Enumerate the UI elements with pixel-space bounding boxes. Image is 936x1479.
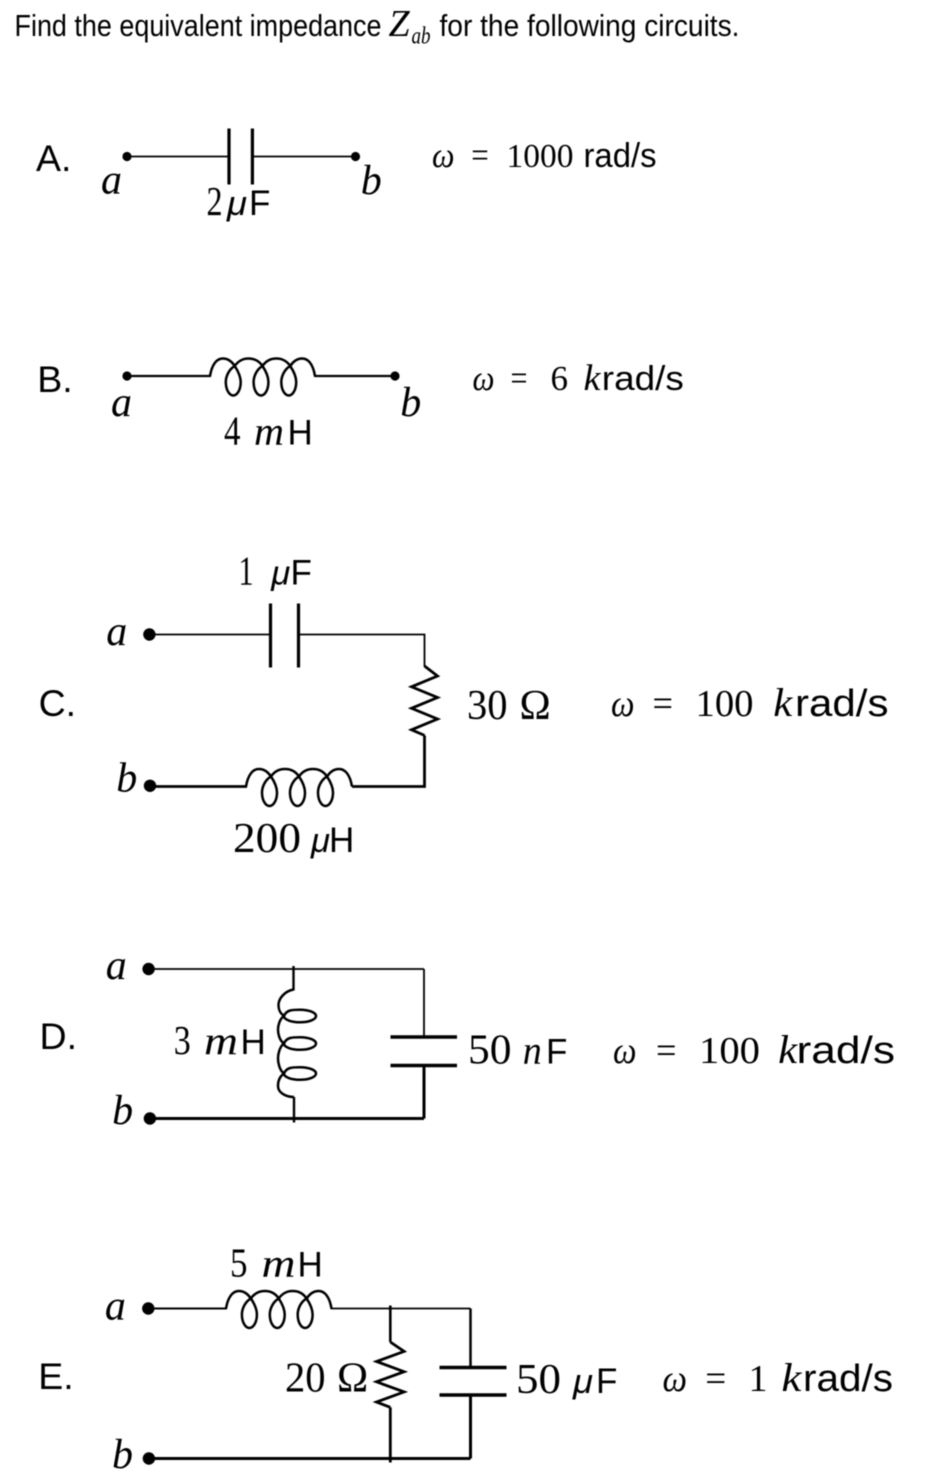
- capacitor 50nF bottom plate: [391, 1064, 458, 1068]
- capacitor 50nF top plate: [391, 1035, 458, 1039]
- svg-text:=: =: [471, 135, 489, 175]
- value label 4 mH: [224, 408, 313, 454]
- node b (E): [143, 1452, 155, 1464]
- wire inductor to top-right corner (E): [331, 1308, 471, 1310]
- svg-text:n: n: [523, 1027, 542, 1072]
- svg-text:μ: μ: [310, 822, 330, 860]
- value label 50 nF: [468, 1027, 567, 1073]
- node a (E): [142, 1302, 154, 1314]
- svg-text:1: 1: [749, 1358, 768, 1400]
- bottom rail (D): [150, 1117, 424, 1120]
- wire a to inductor (B): [127, 375, 211, 377]
- svg-text:100: 100: [699, 1030, 760, 1072]
- svg-text:m: m: [204, 1018, 238, 1063]
- wire inductor to b (B): [314, 375, 395, 377]
- svg-text:3: 3: [174, 1017, 191, 1063]
- svg-text:Ω: Ω: [337, 1356, 368, 1402]
- svg-text:a: a: [105, 1284, 126, 1330]
- svg-text:k: k: [781, 1355, 802, 1400]
- value label 2 uF: [207, 178, 271, 224]
- svg-text:F: F: [596, 1362, 617, 1401]
- svg-text:100: 100: [696, 683, 754, 725]
- node a (D): [142, 963, 154, 975]
- value label 3 mH: [174, 1017, 266, 1063]
- wire capacitor to top-right corner (C): [299, 635, 425, 667]
- svg-text:E.: E.: [38, 1355, 73, 1397]
- svg-text:m: m: [254, 409, 284, 454]
- svg-text:k: k: [773, 680, 793, 725]
- capacitor 2uF right plate: [251, 129, 254, 185]
- node b (C): [144, 780, 156, 792]
- resistor 20 Ohm zigzag: [377, 1342, 405, 1407]
- capacitor 50uF bottom plate: [440, 1393, 507, 1397]
- capacitor branch top lead (E): [469, 1309, 472, 1368]
- inductor 3mH vertical coil: [278, 990, 316, 1098]
- svg-text:50: 50: [516, 1357, 561, 1403]
- omega equation (E): [663, 1355, 894, 1400]
- svg-text:6: 6: [551, 359, 569, 398]
- svg-text:=: =: [653, 683, 674, 725]
- svg-text:=: =: [511, 358, 528, 398]
- node b (D): [144, 1112, 156, 1124]
- svg-text:m: m: [262, 1241, 296, 1286]
- svg-text:1: 1: [239, 548, 254, 594]
- svg-text:rad/s: rad/s: [584, 137, 657, 175]
- svg-text:Z: Z: [389, 3, 411, 45]
- capacitor 2uF left plate: [227, 129, 230, 185]
- svg-text:ω: ω: [663, 1358, 688, 1400]
- svg-text:H: H: [298, 1246, 323, 1285]
- svg-text:rad/s: rad/s: [797, 1030, 896, 1072]
- svg-text:=: =: [656, 1030, 677, 1072]
- capacitor 50uF top plate: [440, 1366, 507, 1370]
- svg-text:b: b: [361, 158, 382, 204]
- capacitor 1uF left plate: [269, 604, 272, 668]
- bottom rail (E): [149, 1457, 471, 1460]
- capacitor branch top lead (D): [423, 969, 425, 1037]
- svg-text:2: 2: [207, 178, 223, 224]
- capacitor branch bottom lead (D): [423, 1066, 426, 1119]
- capacitor 1uF right plate: [297, 604, 300, 668]
- svg-text:for the following circuits.: for the following circuits.: [440, 8, 740, 43]
- svg-text:μ: μ: [226, 185, 247, 223]
- wire inductor to b (C): [149, 785, 247, 788]
- svg-text:50: 50: [468, 1027, 512, 1073]
- inductor branch bottom lead (D): [293, 1097, 295, 1123]
- svg-text:b: b: [400, 380, 421, 426]
- resistor 30 Ohm zigzag: [412, 666, 438, 735]
- node a (A): [122, 152, 131, 161]
- svg-text:a: a: [111, 380, 132, 426]
- resistor branch bottom lead (E): [389, 1407, 392, 1462]
- resistor branch top lead (E): [389, 1306, 392, 1343]
- svg-text:ω: ω: [611, 683, 635, 725]
- omega equation (C): [611, 680, 889, 725]
- svg-text:C.: C.: [39, 682, 77, 724]
- svg-text:μ: μ: [572, 1363, 593, 1401]
- svg-text:rad/s: rad/s: [795, 683, 889, 725]
- svg-text:rad/s: rad/s: [803, 1358, 893, 1400]
- wire a to inductor (E): [148, 1308, 227, 1310]
- svg-text:b: b: [112, 1432, 133, 1478]
- wire resistor to bottom-right corner (C): [352, 735, 425, 786]
- value label 50 uF: [516, 1357, 617, 1403]
- svg-text:ω: ω: [613, 1030, 637, 1072]
- wire capacitor to b (A): [252, 156, 355, 158]
- node a (B): [122, 371, 131, 380]
- svg-text:H: H: [241, 1023, 266, 1062]
- svg-text:ω: ω: [473, 358, 495, 398]
- value label 20 Ohm: [285, 1356, 368, 1402]
- inductor 200uH coil: [246, 769, 352, 806]
- svg-text:a: a: [106, 943, 127, 989]
- svg-text:rad/s: rad/s: [602, 360, 684, 398]
- value label 30 Ohm: [467, 683, 551, 729]
- node a (C): [143, 628, 155, 640]
- svg-text:μ: μ: [270, 555, 290, 593]
- svg-text:20: 20: [285, 1356, 326, 1402]
- svg-text:F: F: [546, 1032, 567, 1071]
- top rail (D): [149, 968, 424, 970]
- omega equation (D): [613, 1027, 895, 1072]
- svg-text:ab: ab: [412, 24, 431, 50]
- svg-text:b: b: [116, 756, 137, 802]
- svg-text:4: 4: [224, 408, 241, 454]
- svg-text:Find the equivalent impedance: Find the equivalent impedance: [15, 8, 382, 43]
- svg-text:5: 5: [230, 1240, 248, 1286]
- svg-text:a: a: [101, 158, 122, 204]
- wire a to capacitor (C): [149, 634, 270, 636]
- svg-text:H: H: [329, 821, 354, 860]
- svg-text:ω: ω: [432, 135, 455, 175]
- svg-text:30: 30: [467, 683, 508, 729]
- svg-text:k: k: [778, 1027, 798, 1072]
- svg-text:=: =: [705, 1358, 726, 1400]
- node b (A): [351, 152, 360, 161]
- svg-text:F: F: [249, 184, 270, 223]
- svg-text:a: a: [106, 609, 127, 655]
- value label 200 uH: [233, 816, 354, 862]
- svg-text:F: F: [291, 554, 312, 593]
- capacitor branch bottom lead (E): [469, 1395, 472, 1459]
- svg-text:H: H: [288, 414, 313, 453]
- omega equation (B): [473, 358, 684, 399]
- value label 5 mH: [230, 1240, 323, 1286]
- svg-text:Ω: Ω: [520, 683, 551, 729]
- svg-text:200: 200: [233, 816, 301, 862]
- inductor 5mH coil: [226, 1291, 332, 1328]
- value label 1 uF: [239, 548, 312, 594]
- svg-text:A.: A.: [36, 137, 71, 179]
- svg-text:1000: 1000: [507, 138, 574, 175]
- node b (B): [390, 371, 399, 380]
- wire a to capacitor (A): [127, 156, 229, 158]
- svg-text:D.: D.: [40, 1015, 78, 1057]
- svg-text:B.: B.: [37, 358, 72, 400]
- omega equation (A): [432, 135, 657, 175]
- inductor branch top lead (D): [292, 966, 294, 991]
- inductor 4mH coil: [210, 359, 315, 396]
- svg-text:b: b: [112, 1088, 133, 1134]
- svg-text:k: k: [584, 358, 602, 399]
